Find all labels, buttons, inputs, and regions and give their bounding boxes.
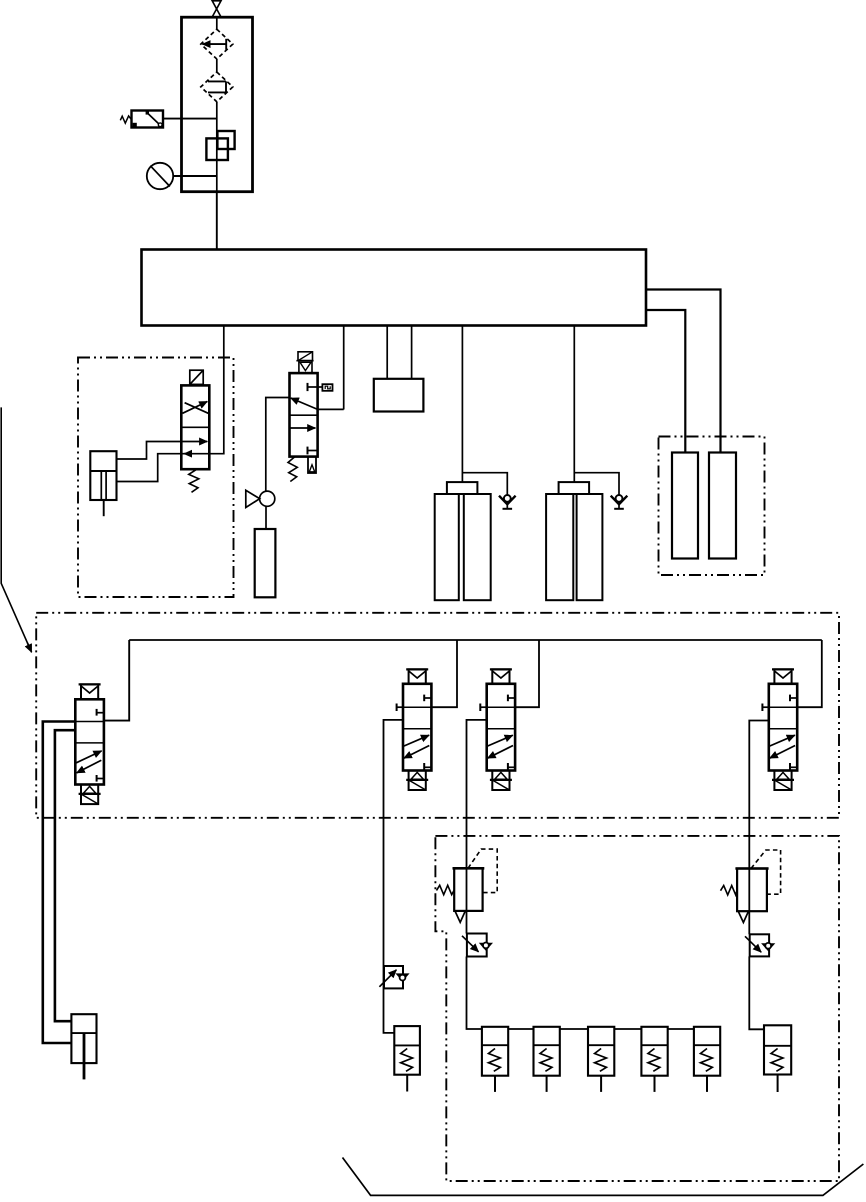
solenoid of clamp valve <box>190 370 203 384</box>
wire left port down to venturi <box>266 398 290 492</box>
spring return cap K4 <box>774 771 791 791</box>
venturi vacuum generator <box>246 490 275 507</box>
reservoir tank 2 <box>709 453 736 559</box>
wire valve to cylinder top port <box>117 442 182 460</box>
accessory block <box>374 379 424 412</box>
valve K2 <box>384 669 432 1033</box>
wire to manifold <box>216 192 218 250</box>
wire K4 out to right regulator <box>749 721 769 869</box>
leader arrow to middle box <box>1 407 31 651</box>
wire K1 port A to cylinder bottom port <box>43 722 76 1044</box>
vent check valve B <box>611 495 628 509</box>
crossed port symbol upper position <box>183 402 209 414</box>
plugged port left K2 <box>396 704 398 712</box>
wire <box>216 17 218 29</box>
spring return cap K1 <box>81 785 98 805</box>
clamp valve 3/2 body <box>181 385 209 469</box>
throttle check valve of K2 line <box>379 966 409 988</box>
pilot section under solenoid <box>299 361 312 373</box>
gripper cylinder G6 <box>764 1025 791 1092</box>
gripper cylinder G3 <box>588 1027 614 1092</box>
pilot dashed loop left regulator <box>468 849 497 893</box>
wire <box>216 59 218 72</box>
throttle check valve right <box>745 934 775 956</box>
gripper cylinder G4 <box>641 1027 667 1092</box>
wire through left regulator <box>466 868 468 933</box>
wire venturi to vacuum reservoir <box>265 506 267 529</box>
valve K4 <box>749 669 797 868</box>
twin filter A left cartridge <box>435 494 459 600</box>
shutoff valve at inlet <box>212 1 221 17</box>
wire taps to accessory block <box>386 326 388 379</box>
gripper cylinder of K2 <box>394 1026 420 1091</box>
gripper cylinder G1 <box>482 1027 508 1092</box>
reservoir tank 1 <box>672 453 698 559</box>
crossed flow arrows K1 <box>76 751 101 763</box>
air service unit enclosure <box>182 17 253 192</box>
valve K1 <box>43 684 104 1043</box>
dryer F2 <box>201 72 233 102</box>
blocked port top right K3 <box>507 695 509 702</box>
wire bus to valve K2 <box>431 640 457 707</box>
wire drain valve to main line <box>163 118 217 120</box>
twin filter B right cartridge <box>577 494 603 600</box>
return spring of vacuum valve <box>288 457 297 482</box>
relief triangle right regulator <box>738 911 748 922</box>
supply bus wire <box>129 639 822 641</box>
vacuum valve body <box>290 373 318 457</box>
clamp cylinder of K1 <box>71 1014 96 1079</box>
manifold block <box>142 250 647 326</box>
wire bus to valve K4 <box>797 640 822 707</box>
gripper cylinder G2 <box>534 1027 560 1092</box>
wire manifold right output 1 <box>646 290 721 453</box>
wire K2 out to throttle check <box>384 720 404 1033</box>
clamp cylinder <box>90 451 116 516</box>
bottom leader bracket <box>343 1158 864 1196</box>
pressure gauge <box>147 163 173 189</box>
crossed flow arrows K2 <box>404 735 429 746</box>
blocked port top right K1 <box>96 709 98 716</box>
gripper cylinder G5 <box>694 1027 720 1092</box>
pilot cap K1 <box>79 683 101 685</box>
valve island boundary <box>36 613 839 818</box>
wire tap to twin filter B <box>573 326 575 483</box>
wire K1 port B to cylinder top port <box>55 730 75 1021</box>
throttle check valve left <box>462 934 493 957</box>
blocked port bottom right K2 <box>423 763 425 770</box>
blocked port bottom right K1 <box>96 775 98 782</box>
wire through right regulator <box>748 869 750 935</box>
arrow flow left in valve lower position <box>184 453 192 455</box>
body K1 <box>75 699 104 784</box>
wire tap to vacuum valve <box>343 326 345 410</box>
gripper row connecting wires <box>508 1028 533 1030</box>
plugged port left K3 <box>479 704 481 712</box>
spring left regulator <box>437 885 455 894</box>
arrow flow right in valve lower position <box>181 441 207 443</box>
wire bus to valve K3 <box>515 640 539 707</box>
divider <box>290 414 318 416</box>
valve K3 <box>467 669 516 868</box>
blocked port top right K4 <box>789 695 791 702</box>
blocked port bottom right K3 <box>507 763 509 770</box>
blocked port top right K2 <box>423 695 425 702</box>
drain solenoid valve <box>120 111 163 128</box>
wire right regulator to gripper 6 <box>749 956 764 1029</box>
spring right regulator <box>721 886 738 895</box>
filter F1 <box>201 29 233 59</box>
blocked port upper with pilot line to S box <box>308 383 333 391</box>
plugged port left K4 <box>761 704 763 712</box>
twin filter B left cartridge <box>546 494 573 600</box>
diagonal flow path with arrow to left port <box>291 398 318 409</box>
wire right port to manifold tap <box>318 408 344 410</box>
solenoid of vacuum valve <box>296 352 313 361</box>
left subcircuit boundary <box>78 358 234 598</box>
vent check valve A <box>499 495 516 509</box>
wire tap to twin filter A <box>461 326 463 483</box>
wire K3 out to left regulator <box>467 720 487 868</box>
blocked port bottom right K4 <box>789 763 791 770</box>
gripper unit boundary <box>435 836 839 1181</box>
left pressure regulator <box>437 849 498 933</box>
twin filter A cap <box>447 482 478 494</box>
right pressure regulator <box>721 850 781 934</box>
crossed flow arrows K3 <box>487 735 512 746</box>
twin filter B cap <box>559 482 590 494</box>
spring return cap K2 <box>409 771 426 791</box>
wire tap to left subcircuit valve and on to cylinder bottom port <box>117 326 224 482</box>
wire manifold right output 2 <box>646 310 685 453</box>
divider <box>181 426 209 428</box>
exhaust stub below valve <box>308 457 316 473</box>
vacuum reservoir tube <box>255 529 276 597</box>
wire gauge to main line <box>173 175 217 177</box>
return spring of clamp valve <box>189 469 199 492</box>
spring return cap K3 <box>492 771 509 791</box>
reservoir boundary <box>659 437 765 576</box>
wire left regulator to gripper row <box>467 957 482 1030</box>
wire bus to valve K1 <box>104 640 129 721</box>
blocked port lower <box>308 447 318 455</box>
twin filter A right cartridge <box>464 494 491 600</box>
crossed flow arrows K4 <box>770 735 795 746</box>
arrow flow straight lower position <box>290 427 316 429</box>
pressure regulator <box>206 131 234 160</box>
wire <box>216 102 218 192</box>
relief triangle left regulator <box>455 911 465 922</box>
pilot dashed loop right regulator <box>751 850 781 894</box>
